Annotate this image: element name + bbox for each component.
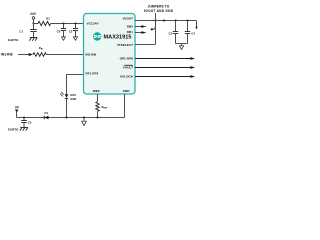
capacitor C5 bbox=[21, 118, 32, 128]
capacitor C2 bbox=[69, 24, 78, 37]
wire VTSELECT bbox=[135, 44, 156, 46]
wire leader / VTSELECT jumper riser bbox=[155, 13, 157, 45]
wire cap common bbox=[176, 43, 188, 45]
svg-text:5VOUT AND GND: 5VOUT AND GND bbox=[144, 9, 174, 13]
svg-text:OP1-OP8: OP1-OP8 bbox=[120, 57, 134, 61]
wire FAULT output arrow bbox=[135, 66, 195, 69]
svg-text:RT1-RT8: RT1-RT8 bbox=[86, 71, 99, 75]
node junction C2 bbox=[75, 23, 77, 25]
svg-text:C6: C6 bbox=[57, 30, 61, 34]
wire RT1-RT8 to LED bbox=[67, 75, 84, 95]
svg-text:5VOUT: 5VOUT bbox=[123, 16, 133, 20]
svg-text:DB1: DB1 bbox=[127, 30, 133, 34]
svg-text:C1: C1 bbox=[19, 29, 23, 33]
chassis ground EARTH (bottom) bbox=[8, 127, 28, 131]
ground (C3/C4) bbox=[179, 44, 183, 50]
node RREF bottom bbox=[97, 117, 99, 119]
resistor RIN bbox=[33, 46, 46, 56]
capacitor C1 bbox=[19, 24, 36, 38]
LED LED1-LED8 bbox=[60, 92, 77, 118]
wire bottom 0V rail bbox=[17, 117, 125, 119]
svg-text:C5: C5 bbox=[28, 121, 32, 125]
resistor R1 bbox=[38, 16, 51, 25]
svg-text:IREF: IREF bbox=[93, 89, 100, 93]
svg-text:VTSELECT: VTSELECT bbox=[117, 43, 133, 47]
wire 5V stub down bbox=[196, 21, 198, 28]
node C4 top bbox=[187, 20, 189, 22]
node C3 top bbox=[175, 20, 177, 22]
svg-text:IN1-IN8: IN1-IN8 bbox=[86, 52, 97, 56]
svg-text:C2: C2 bbox=[69, 30, 73, 34]
svg-text:DB0: DB0 bbox=[127, 25, 133, 29]
wire DB0 arrow bbox=[135, 26, 141, 28]
wire bbox=[51, 23, 84, 25]
node on 5VOUT rail bbox=[155, 20, 157, 22]
ground (C6) bbox=[62, 37, 66, 40]
svg-text:R1: R1 bbox=[46, 16, 50, 20]
node LED wire bbox=[66, 117, 68, 119]
input terminal IN1-IN8 bbox=[1, 52, 33, 56]
chassis ground EARTH (top) bbox=[8, 38, 37, 43]
node: 24V input node bbox=[33, 23, 35, 25]
ground (C2) bbox=[74, 37, 78, 40]
wire bbox=[34, 23, 39, 25]
svg-text:FAULT: FAULT bbox=[123, 66, 133, 70]
svg-text:D1: D1 bbox=[45, 111, 49, 115]
svg-text:IN1-IN8: IN1-IN8 bbox=[1, 52, 13, 56]
svg-text:MAX31915: MAX31915 bbox=[104, 35, 132, 41]
svg-text:GND: GND bbox=[123, 89, 131, 93]
wire UVLOCK output arrow bbox=[135, 75, 195, 78]
svg-text:24V: 24V bbox=[30, 12, 37, 16]
svg-text:EARTH: EARTH bbox=[8, 38, 18, 42]
svg-text:UVLOCK: UVLOCK bbox=[120, 75, 134, 79]
svg-text:EARTH: EARTH bbox=[8, 127, 18, 131]
wire DB1 arrow bbox=[135, 32, 141, 34]
wire bbox=[46, 54, 83, 56]
ground (bottom rail) bbox=[82, 117, 87, 126]
svg-text:VCC24V: VCC24V bbox=[87, 21, 100, 25]
logo bbox=[93, 32, 101, 40]
svg-text:LED1: LED1 bbox=[70, 94, 77, 97]
node bbox=[163, 20, 165, 22]
svg-text:JUMPERS TO: JUMPERS TO bbox=[148, 5, 170, 9]
node junction C6 bbox=[63, 23, 65, 25]
svg-text:C3: C3 bbox=[169, 32, 173, 36]
capacitor C6 bbox=[57, 24, 66, 37]
jumper dot bbox=[152, 27, 155, 30]
supply terminal 24V bbox=[30, 12, 37, 24]
svg-text:LED8: LED8 bbox=[70, 98, 77, 101]
wire 5VOUT rail bbox=[135, 20, 197, 22]
note: jumpers text bbox=[144, 5, 174, 13]
wire GND pin down bbox=[124, 94, 126, 118]
resistor RREF bbox=[96, 94, 109, 118]
wire OP1-OP8 output arrow bbox=[135, 57, 195, 60]
capacitor C4 bbox=[185, 21, 196, 44]
supply terminal 0V bbox=[15, 106, 20, 118]
chip U1 MAX31915 bbox=[84, 14, 136, 95]
node C5 bbox=[23, 117, 25, 119]
svg-text:C4: C4 bbox=[191, 32, 195, 36]
diode D1 bbox=[44, 111, 48, 119]
capacitor C3 bbox=[169, 21, 179, 44]
